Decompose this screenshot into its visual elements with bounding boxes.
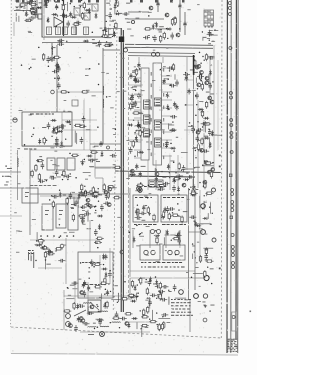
node junction (174, 21, 175, 22)
node junction (104, 303, 105, 304)
wire (168, 297, 170, 304)
diode D71 (132, 317, 138, 320)
capacitor C46 (170, 128, 177, 132)
value label (80, 217, 85, 220)
diode D10 (25, 2, 31, 5)
diode D62 (209, 142, 212, 148)
diode D25 (166, 104, 169, 110)
IC pin wire (162, 131, 173, 133)
resistor R115 (143, 309, 145, 317)
node junction (36, 240, 37, 241)
node junction (209, 40, 210, 41)
wire (34, 15, 36, 19)
capacitor C137 (72, 281, 79, 285)
diode D21 (127, 124, 133, 127)
capacitor C147 (157, 324, 161, 331)
value label (50, 59, 55, 62)
electrolytic capacitor C141 (83, 280, 86, 286)
wire (90, 166, 122, 168)
wire (118, 1, 120, 7)
wire (184, 79, 194, 81)
cut-off component at page top (170, 0, 173, 3)
wire (154, 168, 156, 177)
transistor Q26 (107, 203, 111, 207)
transistor Q9 (86, 198, 90, 202)
capacitor C71 (59, 124, 66, 128)
node junction (138, 279, 139, 280)
resistor R82 (204, 270, 206, 278)
value label (94, 211, 96, 214)
node junction (67, 287, 68, 288)
capacitor C130 (100, 204, 104, 211)
coil can LC4 (72, 27, 77, 35)
node junction (149, 213, 150, 214)
capacitor C105 (168, 207, 175, 211)
resistor R12 (101, 35, 109, 37)
node junction (205, 306, 206, 307)
resistor R20 (174, 17, 176, 25)
diode D73 (59, 192, 62, 198)
lamp cross stroke (137, 187, 141, 191)
node junction (139, 234, 140, 235)
margin mark (250, 311, 252, 313)
value label (206, 91, 210, 94)
capacitor C136 (97, 318, 104, 322)
node junction (16, 7, 17, 8)
connector terminal P11 (230, 151, 233, 154)
resistor R13 (115, 22, 117, 30)
node junction (207, 267, 208, 268)
transistor Q1 (54, 0, 58, 2)
node junction (146, 279, 147, 280)
connector terminal P18 (231, 246, 234, 249)
electrolytic capacitor C124 (82, 282, 85, 288)
wire (92, 159, 97, 161)
value label (169, 290, 172, 293)
value label (95, 191, 99, 194)
wire (177, 155, 179, 190)
wire (207, 213, 209, 218)
output jack J3 (204, 275, 209, 280)
capacitor C112 (204, 253, 208, 260)
capacitor C63 (172, 185, 176, 192)
value label (133, 101, 137, 104)
inductor L3 (102, 86, 105, 95)
IC internal line (145, 118, 150, 120)
lamp cross stroke (138, 188, 141, 191)
wire (102, 178, 104, 192)
lamp cross stroke (100, 332, 103, 335)
wire (19, 0, 21, 8)
IC pin wire (162, 155, 173, 157)
resistor R49 (94, 241, 102, 243)
connector terminal P3 (229, 13, 232, 16)
node junction (110, 8, 111, 9)
electrolytic capacitor C14 (183, 21, 186, 27)
connector strip rail (237, 0, 239, 353)
capacitor C16 (57, 39, 64, 43)
text block (82, 262, 100, 263)
capacitor C27 (170, 33, 174, 40)
value label (78, 191, 82, 194)
coil can stroke (86, 15, 89, 19)
wire (211, 34, 218, 36)
value label (42, 126, 46, 129)
resistor R60 (55, 248, 63, 250)
value label (108, 33, 110, 36)
diode D34 (60, 141, 63, 147)
wire (36, 0, 38, 18)
wire (179, 230, 181, 248)
value label (210, 267, 214, 270)
node junction (114, 26, 115, 27)
capacitor C48 (183, 73, 190, 77)
capacitor C102 (166, 206, 170, 213)
wire (90, 143, 122, 145)
electrolytic capacitor C40 (99, 141, 102, 147)
wire (109, 248, 111, 284)
diode D65 (101, 268, 107, 271)
connector terminal P19 (231, 250, 234, 253)
diode D28 (178, 174, 181, 180)
capacitor C85 (94, 229, 98, 236)
cut-off component at page top (44, 0, 47, 3)
capacitor C119 (196, 135, 200, 142)
node junction (197, 121, 198, 122)
IC internal line (156, 123, 161, 125)
wire (149, 230, 151, 248)
resistor R45 (66, 197, 68, 205)
node junction (51, 48, 52, 49)
node junction (46, 140, 47, 141)
text block (28, 250, 34, 254)
resistor R50 (96, 237, 104, 239)
resistor R19 (144, 28, 152, 30)
inductor L12 (88, 326, 97, 329)
connector strip rail (230, 0, 232, 353)
node junction (140, 127, 141, 128)
alignment table (204, 10, 214, 26)
node junction (57, 7, 58, 8)
capacitor C123 (83, 290, 87, 297)
IC pin block U4 (155, 120, 162, 130)
connector terminal P17 (231, 234, 234, 237)
IC internal line (145, 101, 150, 103)
wire (128, 55, 195, 58)
resistor R58 (74, 124, 82, 126)
capacitor C156 (52, 195, 59, 199)
lamp cross stroke (137, 187, 141, 191)
section border dashed line (128, 57, 130, 190)
diode D39 (51, 119, 57, 122)
capacitor C2 (79, 14, 86, 18)
node junction (81, 0, 82, 1)
value label (40, 246, 44, 249)
connector terminal P2 (228, 7, 231, 10)
capacitor C4 (60, 14, 67, 18)
node junction (211, 65, 212, 66)
wire (184, 12, 186, 35)
value label (109, 33, 113, 36)
wire (147, 160, 149, 190)
resistor R15 (174, 16, 176, 24)
table cell mark (208, 13, 210, 15)
capacitor C150 (162, 285, 169, 289)
electrolytic capacitor C67 (155, 176, 158, 182)
capacitor C86 (110, 154, 117, 158)
wire (99, 255, 101, 290)
node junction (23, 10, 24, 11)
signal rail wire (125, 47, 213, 48)
resistor R57 (78, 125, 86, 127)
coil can stroke (48, 28, 50, 34)
wire (206, 55, 214, 57)
value label (176, 136, 178, 139)
connector terminal P4 (229, 47, 232, 50)
filter box 4 (72, 100, 78, 106)
text block (82, 284, 106, 285)
transistor Q25 (104, 191, 108, 195)
supply bus wire (120, 28, 122, 312)
cut-off component at page top (22, 0, 25, 3)
resistor R81 (205, 247, 207, 255)
node junction (57, 15, 58, 16)
coil can LC1 (47, 27, 52, 35)
resistor R4 (81, 12, 83, 20)
IC internal line (158, 186, 162, 188)
node junction (5, 165, 6, 166)
node junction (172, 121, 173, 122)
resistor R120 (92, 193, 100, 195)
diode D50 (149, 277, 152, 283)
node junction (181, 170, 182, 171)
IC internal line (145, 135, 149, 137)
node junction (134, 156, 135, 157)
node junction (59, 224, 60, 225)
value label (132, 69, 137, 72)
wire (87, 282, 89, 306)
value label (204, 135, 208, 138)
resistor R101 (88, 191, 96, 193)
lamp LA2 (138, 188, 143, 193)
resistor R103 (121, 298, 129, 300)
resistor R89 (204, 181, 206, 189)
resistor R61 (40, 238, 42, 246)
node junction (61, 174, 62, 175)
capacitor C134 (98, 319, 102, 326)
test point TP5 (60, 244, 64, 248)
transistor Q11 (195, 65, 199, 69)
capacitor C114 (197, 75, 204, 79)
resistor R118 (159, 282, 161, 290)
connector terminal P22 (232, 266, 235, 269)
transformer winding TR4 (175, 250, 179, 254)
wire (106, 303, 108, 307)
node junction (133, 80, 134, 81)
node junction (169, 130, 170, 131)
electrolytic capacitor C35 (134, 77, 137, 83)
transistor Q4 (176, 33, 180, 37)
cut-off component at page top (182, 0, 185, 3)
stage box 4 (42, 204, 53, 230)
pin number labels (151, 72, 152, 156)
connector terminal P7 (230, 119, 233, 122)
node junction (62, 179, 63, 180)
node junction (135, 90, 136, 91)
value label (132, 88, 136, 91)
node junction (131, 176, 132, 177)
resistor R41 (90, 151, 98, 153)
wire (199, 190, 201, 260)
value label (210, 304, 214, 307)
value label (186, 172, 188, 175)
diode D31 (177, 186, 180, 192)
node junction (210, 260, 211, 261)
transistor Q24 (108, 187, 112, 191)
transistor Q32 (90, 305, 94, 309)
text block (134, 224, 157, 225)
wire (62, 119, 97, 121)
wire (165, 234, 176, 236)
resistor R68 (162, 211, 164, 219)
node junction (204, 60, 205, 61)
capacitor C140 (83, 322, 90, 326)
node junction (97, 306, 98, 307)
table cell mark (205, 21, 207, 23)
margin mark (219, 166, 221, 168)
node junction (66, 235, 68, 237)
node junction (202, 126, 203, 127)
wire (61, 147, 63, 148)
wire (61, 4, 66, 6)
electrolytic capacitor C122 (106, 290, 109, 296)
node junction (170, 216, 171, 217)
transistor Q31 (80, 291, 84, 295)
value label (205, 259, 208, 262)
value label (59, 209, 63, 212)
wire (26, 0, 28, 10)
node junction (130, 174, 131, 175)
node junction (202, 208, 203, 209)
resistor R78 (190, 192, 198, 194)
resistor R105 (125, 313, 133, 315)
section border dashed line (11, 327, 221, 338)
node junction (38, 160, 39, 161)
resistor R22 (132, 112, 140, 114)
IC internal line (150, 183, 154, 185)
wire (208, 137, 210, 148)
transistor Q3 (165, 13, 169, 17)
IC internal line (145, 121, 150, 123)
resistor R41 (81, 91, 89, 93)
node junction (170, 84, 171, 85)
diode D53 (130, 293, 133, 299)
node junction (212, 81, 213, 82)
input box (22, 188, 38, 203)
wire (181, 152, 188, 154)
transistor Q23 (196, 130, 200, 134)
wire (128, 18, 164, 20)
resistor R107 (73, 302, 75, 310)
diode D21 (97, 215, 103, 218)
value label (96, 160, 100, 163)
value label (92, 38, 95, 41)
node junction (60, 235, 62, 237)
transformer winding TR1 (144, 250, 148, 254)
node junction (175, 172, 176, 173)
resistor R108 (163, 321, 165, 329)
resistor R92 (210, 171, 212, 179)
diode D30 (130, 173, 136, 176)
node junction (167, 38, 168, 39)
wire (156, 169, 158, 180)
capacitor C117 (208, 129, 212, 136)
value label (126, 2, 130, 5)
diode D60 (198, 108, 204, 111)
value label (137, 106, 140, 109)
node junction (192, 243, 193, 244)
node junction (35, 260, 36, 261)
diode D37 (38, 138, 41, 144)
jack J11 (157, 230, 161, 234)
value label (50, 175, 54, 178)
table cell mark (205, 16, 207, 18)
inductor L13 (117, 293, 120, 302)
value label (192, 245, 195, 248)
wire (197, 100, 199, 188)
capacitor C21 (108, 12, 112, 19)
value label (25, 191, 29, 194)
wire (174, 74, 176, 80)
capacitor C132 (115, 311, 119, 318)
diode D66 (105, 272, 108, 278)
node junction (83, 126, 84, 127)
resistor R7 (30, 3, 38, 5)
capacitor C92 (57, 82, 61, 89)
value label (67, 121, 71, 124)
wire (77, 200, 79, 208)
resistor R106 (63, 310, 71, 312)
wire (104, 37, 110, 39)
IC internal line (145, 106, 150, 108)
wire (66, 2, 68, 11)
wire (193, 55, 195, 75)
jack J9 (212, 188, 216, 192)
wire (137, 120, 139, 128)
resistor R24 (132, 140, 134, 148)
wire (62, 129, 97, 131)
wire (80, 331, 150, 333)
wire (130, 270, 195, 272)
value label (194, 71, 198, 74)
IC pin block U7 (157, 180, 163, 187)
electrolytic capacitor C62 (135, 164, 138, 170)
capacitor C47 (169, 84, 176, 88)
node junction (133, 120, 134, 121)
connector terminal P14 (231, 201, 234, 204)
wire (161, 292, 163, 299)
switch S1 (74, 310, 86, 316)
resistor R21 (135, 68, 137, 76)
node junction (87, 205, 88, 206)
electrolytic capacitor C91 (57, 64, 60, 70)
node junction (110, 291, 111, 292)
electrolytic capacitor C59 (192, 184, 195, 190)
value label (195, 188, 198, 191)
capacitor C74 (55, 169, 59, 176)
node junction (200, 63, 201, 64)
node junction (156, 312, 157, 313)
